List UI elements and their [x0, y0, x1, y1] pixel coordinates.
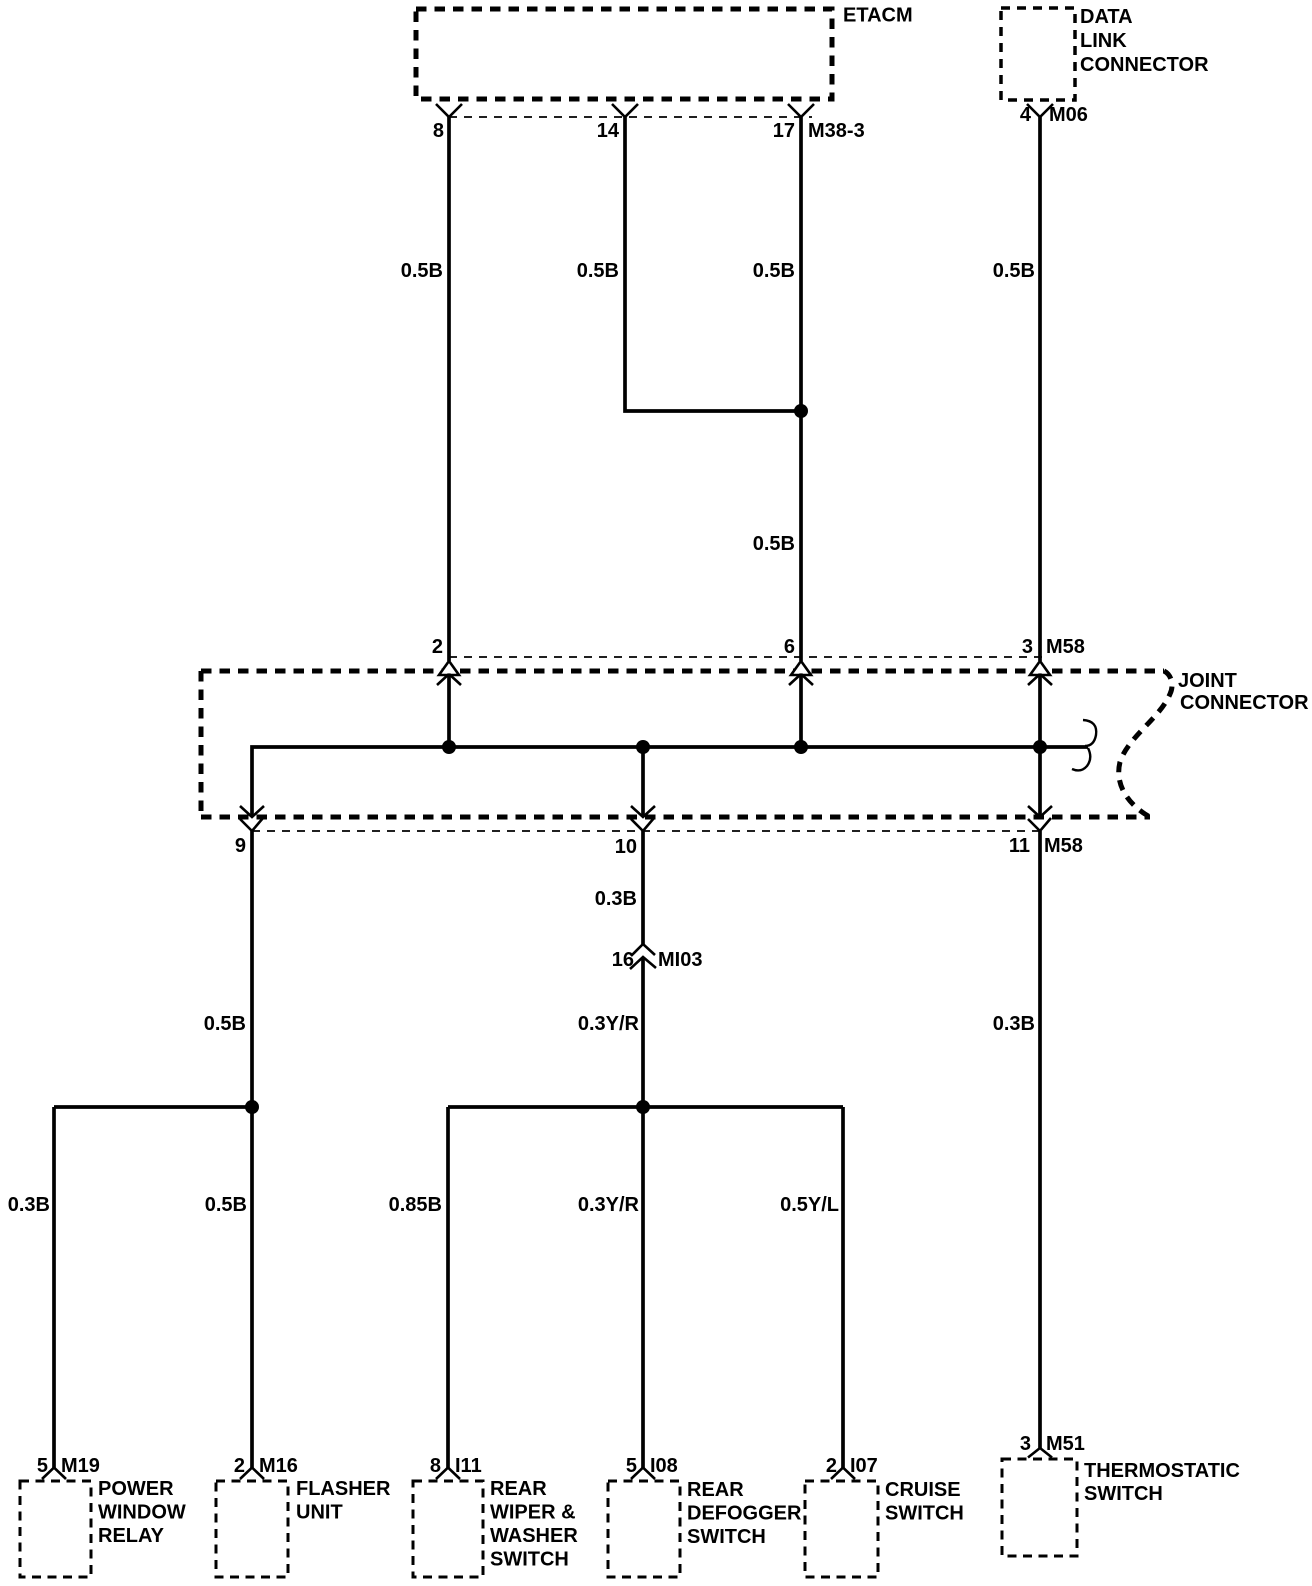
svg-text:2: 2 — [234, 1455, 245, 1477]
svg-text:M19: M19 — [61, 1455, 100, 1477]
svg-text:0.3B: 0.3B — [595, 888, 637, 910]
component box power window relay — [20, 1481, 91, 1577]
left branch wire — [54, 1105, 252, 1109]
svg-text:I11: I11 — [455, 1455, 482, 1477]
svg-text:SWITCH: SWITCH — [490, 1549, 569, 1571]
svg-text:11: 11 — [1009, 835, 1030, 857]
pin fork 8 at ETACM — [436, 104, 462, 117]
wire to flasher unit — [250, 1107, 254, 1468]
svg-text:SWITCH: SWITCH — [687, 1526, 766, 1548]
wire pin2 stub to bus — [447, 676, 451, 747]
svg-text:FLASHER: FLASHER — [296, 1478, 391, 1500]
component box rear defogger switch — [608, 1481, 680, 1577]
junction dot left branch — [245, 1100, 259, 1114]
wire to rear wiper washer switch — [446, 1107, 450, 1468]
svg-text:I08: I08 — [650, 1455, 678, 1477]
pin fork 4 at data link connector — [1027, 104, 1053, 117]
pin fork 5 at power window relay — [42, 1468, 66, 1480]
bus wire inside joint connector — [252, 747, 1088, 816]
wire ETACM pin 17 down — [799, 117, 803, 661]
svg-text:SWITCH: SWITCH — [885, 1503, 964, 1525]
junction dot pin14/pin17 wires — [794, 404, 808, 418]
svg-text:DEFOGGER: DEFOGGER — [687, 1503, 802, 1525]
svg-text:I07: I07 — [850, 1455, 878, 1477]
svg-text:10: 10 — [615, 836, 637, 858]
dashed pin row line below joint connector — [252, 830, 1040, 832]
svg-text:REAR: REAR — [490, 1478, 547, 1500]
svg-text:9: 9 — [235, 835, 246, 857]
svg-text:0.3B: 0.3B — [8, 1194, 50, 1216]
svg-text:JOINT: JOINT — [1178, 670, 1237, 692]
svg-text:4: 4 — [1020, 104, 1032, 126]
svg-text:RELAY: RELAY — [98, 1525, 165, 1547]
svg-text:0.5B: 0.5B — [205, 1194, 247, 1216]
connector ETACM (dashed box) — [416, 9, 832, 99]
svg-text:0.85B: 0.85B — [389, 1194, 442, 1216]
pin fork 14 at ETACM — [612, 104, 638, 117]
wire joint pin 9 down — [250, 831, 254, 1107]
svg-text:17: 17 — [773, 120, 795, 142]
svg-text:6: 6 — [784, 636, 795, 658]
connector DATA LINK CONNECTOR (dashed box) — [1001, 8, 1075, 100]
svg-text:WINDOW: WINDOW — [98, 1502, 186, 1524]
component box rear wiper washer switch — [413, 1481, 483, 1577]
svg-text:0.5Y/L: 0.5Y/L — [780, 1194, 839, 1216]
wire ETACM pin 8 to joint connector pin 2 — [447, 117, 451, 661]
component box thermostatic switch — [1002, 1459, 1077, 1556]
svg-text:0.5B: 0.5B — [753, 533, 795, 555]
svg-text:UNIT: UNIT — [296, 1502, 343, 1524]
svg-text:0.5B: 0.5B — [993, 260, 1035, 282]
svg-text:16: 16 — [612, 949, 634, 971]
svg-text:CRUISE: CRUISE — [885, 1479, 961, 1501]
wire to power window relay — [52, 1107, 56, 1468]
svg-text:14: 14 — [597, 120, 620, 142]
component box flasher unit — [216, 1481, 288, 1577]
svg-text:0.5B: 0.5B — [753, 260, 795, 282]
svg-text:SWITCH: SWITCH — [1084, 1483, 1163, 1505]
bus end curl — [1083, 720, 1096, 746]
svg-text:REAR: REAR — [687, 1479, 744, 1501]
pin fork 2 at flasher unit — [240, 1468, 264, 1480]
svg-text:CONNECTOR: CONNECTOR — [1080, 54, 1209, 76]
svg-text:DATA: DATA — [1080, 6, 1133, 28]
svg-text:M06: M06 — [1049, 104, 1088, 126]
wire data link pin 4 to joint connector pin 3 — [1038, 117, 1042, 661]
svg-text:M16: M16 — [259, 1455, 298, 1477]
svg-text:M58: M58 — [1044, 835, 1083, 857]
svg-text:WIPER &: WIPER & — [490, 1502, 576, 1524]
wire pin6 stub to bus — [799, 676, 803, 747]
svg-text:ETACM: ETACM — [843, 5, 913, 27]
svg-text:0.3B: 0.3B — [993, 1013, 1035, 1035]
svg-text:5: 5 — [37, 1455, 48, 1477]
svg-text:0.5B: 0.5B — [204, 1013, 246, 1035]
wire ETACM pin 14 down and right — [625, 117, 801, 411]
svg-text:MI03: MI03 — [658, 949, 702, 971]
pin fork 17 at ETACM — [788, 104, 814, 117]
junction dot bus/pin6 — [794, 740, 808, 754]
svg-text:0.5B: 0.5B — [577, 260, 619, 282]
junction dot bus/pin3 — [1033, 740, 1047, 754]
svg-text:POWER: POWER — [98, 1478, 174, 1500]
component box cruise switch — [805, 1481, 878, 1577]
dashed pin row line above joint connector — [449, 656, 1045, 658]
joint connector pin 6 terminal pair — [791, 661, 811, 675]
svg-text:8: 8 — [433, 120, 444, 142]
svg-text:M38-3: M38-3 — [808, 120, 865, 142]
joint connector pin 2 terminal pair — [439, 661, 459, 675]
svg-text:3: 3 — [1022, 636, 1033, 658]
inline connector M103 — [631, 944, 655, 956]
svg-text:THERMOSTATIC: THERMOSTATIC — [1084, 1460, 1240, 1482]
svg-text:M51: M51 — [1046, 1433, 1085, 1455]
wire pin3 stub to bus — [1038, 676, 1042, 747]
right branch wire — [448, 1105, 843, 1109]
joint connector (dashed box with curved notch) — [201, 669, 1164, 674]
pin fork 8 at rear wiper washer switch — [436, 1468, 460, 1480]
junction dot bus/pin10 — [636, 740, 650, 754]
junction dot right branch — [636, 1100, 650, 1114]
svg-text:2: 2 — [432, 636, 443, 658]
joint connector pin 9 terminal pair — [240, 806, 264, 817]
svg-text:5: 5 — [626, 1455, 637, 1477]
joint connector pin 11 terminal pair — [1038, 747, 1042, 816]
svg-text:3: 3 — [1020, 1433, 1031, 1455]
joint connector pin 3 terminal pair — [1030, 661, 1050, 675]
wire joint pin 11 down to thermostatic switch — [1038, 831, 1042, 1448]
svg-text:2: 2 — [826, 1455, 837, 1477]
wire M103 down to branch node — [641, 957, 645, 1107]
svg-text:8: 8 — [430, 1455, 441, 1477]
svg-text:0.3Y/R: 0.3Y/R — [578, 1013, 640, 1035]
wire to cruise switch — [841, 1107, 845, 1468]
svg-text:0.5B: 0.5B — [401, 260, 443, 282]
junction dot bus/pin2 — [442, 740, 456, 754]
svg-text:LINK: LINK — [1080, 30, 1127, 52]
svg-text:WASHER: WASHER — [490, 1525, 578, 1547]
pin fork 3 at thermostatic switch — [1028, 1448, 1052, 1458]
wire to rear defogger switch — [641, 1107, 645, 1468]
pin fork 5 at rear defogger switch — [631, 1468, 655, 1480]
svg-text:0.3Y/R: 0.3Y/R — [578, 1194, 640, 1216]
wire joint pin 10 down to M103 — [641, 831, 645, 944]
svg-text:M58: M58 — [1046, 636, 1085, 658]
joint connector pin 10 terminal pair — [641, 747, 645, 816]
dashed pin row line under ETACM — [449, 116, 812, 118]
pin fork 2 at cruise switch — [831, 1468, 855, 1480]
svg-text:CONNECTOR: CONNECTOR — [1180, 692, 1309, 714]
